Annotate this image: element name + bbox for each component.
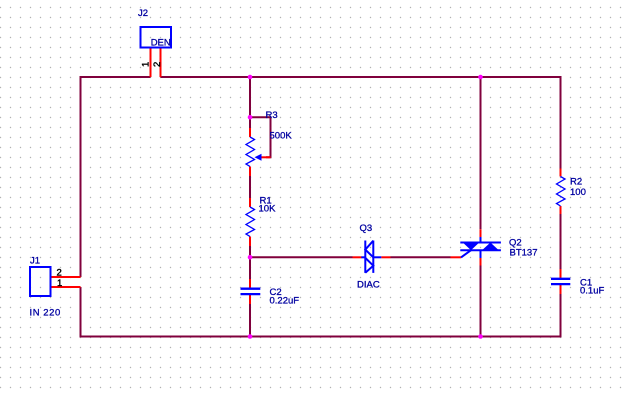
svg-text:1: 1 — [57, 278, 62, 289]
svg-text:0.1uF: 0.1uF — [580, 286, 604, 297]
svg-text:10K: 10K — [259, 204, 277, 215]
svg-text:1: 1 — [141, 62, 152, 67]
svg-text:100: 100 — [570, 187, 586, 198]
svg-text:R2: R2 — [570, 177, 582, 188]
svg-text:2: 2 — [57, 268, 62, 279]
svg-text:IN 220: IN 220 — [30, 308, 61, 319]
svg-text:J1: J1 — [30, 256, 40, 267]
svg-text:J2: J2 — [138, 8, 148, 19]
svg-text:DIAC: DIAC — [357, 280, 380, 291]
svg-text:Q3: Q3 — [360, 223, 373, 234]
svg-text:2: 2 — [152, 62, 163, 67]
svg-text:0.22uF: 0.22uF — [270, 296, 300, 307]
svg-text:DEN: DEN — [151, 38, 171, 49]
svg-text:500K: 500K — [270, 131, 293, 142]
svg-text:R3: R3 — [266, 110, 278, 121]
svg-text:BT137: BT137 — [510, 248, 538, 259]
